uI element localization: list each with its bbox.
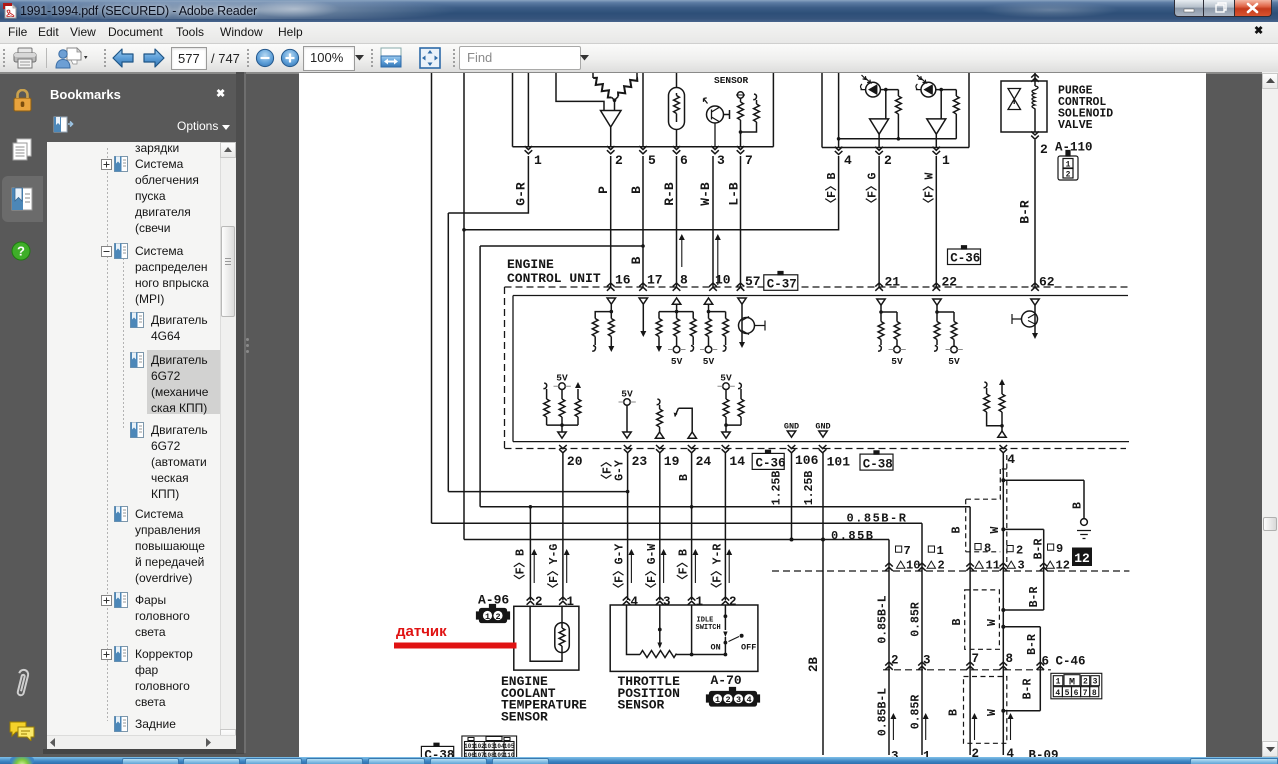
ECU outer dashed box [505, 287, 1131, 449]
svg-text:23: 23 [632, 454, 648, 469]
svg-text:P: P [596, 186, 611, 194]
marker sq7/tri10 [896, 544, 921, 573]
svg-text:8: 8 [984, 542, 991, 556]
zoom out [255, 48, 275, 68]
connector cell digits C-38 icon [464, 743, 515, 759]
svg-text:W: W [986, 709, 999, 716]
transistor Q1 [704, 98, 730, 147]
svg-text:1.25B: 1.25B [771, 471, 784, 506]
svg-text:2: 2 [535, 595, 543, 609]
internal bus [839, 138, 957, 140]
valve symbol [1008, 89, 1021, 110]
marker sq8/tri11 [975, 542, 1000, 573]
resistor R4 [741, 94, 760, 132]
svg-text:5V: 5V [720, 373, 732, 384]
svg-text:1: 1 [1056, 678, 1061, 687]
direction arrows above sensors [531, 549, 732, 583]
marker sq2/tri3 [1007, 544, 1025, 573]
svg-text:〈F〉Y-R: 〈F〉Y-R [709, 544, 724, 595]
ECU group pin17: direct line [639, 298, 647, 337]
svg-text:SENSOR: SENSOR [714, 75, 749, 86]
connector cell digits C-46 [1055, 678, 1097, 698]
A-96 sensor pin forks [527, 597, 567, 605]
svg-text:W: W [986, 619, 999, 626]
wire B-R from purge valve [1034, 140, 1036, 287]
D2 wiring + resistor [936, 88, 959, 139]
svg-text:0.85R: 0.85R [910, 695, 923, 730]
ECU group pin62: transistor [1012, 299, 1039, 339]
wire ECU14 to TPS pin2 [724, 453, 726, 600]
svg-text:16: 16 [615, 273, 631, 288]
solenoid coil [1031, 73, 1039, 139]
connector A-96 icon [477, 605, 510, 623]
horizontal H1 [448, 491, 627, 493]
svg-text:106: 106 [795, 453, 819, 468]
sensor box2 pin forks [835, 147, 940, 155]
svg-text:4: 4 [631, 595, 639, 609]
wire ECU101 1.25B / 2B [821, 453, 825, 755]
ECU row2 group pin20: triple resistors 5V [543, 382, 581, 438]
svg-text:7: 7 [745, 153, 753, 168]
panel header [50, 87, 121, 102]
svg-text:C-38: C-38 [863, 457, 893, 471]
bookmarks list [47, 142, 236, 735]
horizontal H3 0.85B-R [432, 523, 923, 755]
long vertical V3 [462, 73, 466, 540]
svg-text:C-38: C-38 [424, 749, 454, 758]
harness forks on D1 [885, 563, 1047, 571]
svg-text:2: 2 [938, 559, 945, 573]
svg-text:1: 1 [715, 695, 720, 705]
svg-text:17: 17 [647, 273, 663, 288]
signal arrow at pin8 wire [679, 234, 685, 267]
dashed wire W path [966, 455, 1007, 566]
connector label C-38 (right of 101) [860, 451, 893, 470]
wire ECU23 to TPS pin4 [626, 453, 630, 600]
svg-text:SENSOR: SENSOR [501, 710, 548, 725]
5V labels row1 [671, 356, 960, 367]
harness forks on D2 [885, 662, 1044, 670]
svg-text:R-B: R-B [662, 182, 677, 206]
svg-text:1: 1 [485, 612, 490, 622]
svg-text:0.85B-R: 0.85B-R [847, 512, 908, 526]
svg-text:5V: 5V [891, 356, 903, 367]
ECU top pin forks [607, 283, 1039, 291]
ground symbol [1077, 519, 1091, 539]
resistor R3 with 5V tap [736, 92, 745, 147]
ECU group pin10: dual resistors 5V [700, 298, 728, 353]
connector label C-36 (upper) [948, 246, 981, 265]
ECU row2 group pin4: dual resistors [984, 379, 1007, 437]
rotated wire labels top [514, 173, 1033, 265]
svg-text:B-R: B-R [1028, 587, 1041, 608]
connector cell digits A-110 [1066, 160, 1071, 179]
fit width icon [379, 47, 403, 69]
5V labels row2 [556, 373, 732, 400]
svg-text:5V: 5V [948, 356, 960, 367]
ECU group pin8: triple resistors 5V [656, 298, 696, 353]
connector cell digits A-96 [485, 612, 501, 622]
svg-text:5V: 5V [621, 389, 633, 400]
svg-text:2: 2 [729, 595, 737, 609]
svg-text:SWITCH: SWITCH [696, 624, 721, 632]
svg-text:SENSOR: SENSOR [618, 698, 665, 713]
direction arrows bottom [890, 713, 1013, 740]
svg-text:B-R: B-R [1018, 200, 1033, 224]
wire F-G to ECU21 [878, 156, 880, 287]
svg-text:A-110: A-110 [1055, 141, 1093, 155]
connector label C-36 (lower) [752, 450, 784, 469]
svg-text:3: 3 [736, 695, 741, 705]
svg-text:A-70: A-70 [711, 673, 742, 688]
ECU row2 group pin14: dual resistors 5V [718, 383, 744, 438]
TPS pin forks [623, 597, 730, 605]
TPS pin1 wire [691, 605, 693, 655]
svg-text:1: 1 [696, 595, 704, 609]
svg-text:4: 4 [844, 153, 852, 168]
wire ECU24 to TPS pin1 [690, 453, 694, 600]
dashed box around B/W wires (upper) [965, 590, 1000, 649]
svg-text:B: B [629, 256, 644, 264]
marker sq9/tri12 [1046, 542, 1070, 573]
wire pin4 [837, 73, 841, 148]
ECU group pin21: dual resistors 5V [877, 299, 906, 353]
fit page icon [418, 47, 442, 69]
GND pin106 [787, 431, 795, 437]
svg-text:6: 6 [680, 153, 688, 168]
lamp L1 capsule [669, 73, 685, 147]
horizontal H4 0.85B [464, 540, 889, 756]
B-R staple 1 [1001, 527, 1043, 612]
ECT sensor box [514, 606, 579, 670]
svg-text:2: 2 [1016, 544, 1023, 558]
svg-text:3: 3 [891, 750, 899, 758]
red annotation underline [394, 643, 517, 649]
printer icon [13, 47, 37, 69]
dashed harness line D2 [883, 669, 1051, 671]
svg-text:2: 2 [884, 153, 892, 168]
connector C-46 icon [1051, 673, 1102, 699]
sensor box 2 (injectors) [822, 73, 969, 148]
svg-text:7: 7 [972, 652, 980, 666]
wire ECU106 1.25B [790, 453, 794, 542]
svg-text:B: B [678, 474, 691, 481]
D1 wiring + resistor [880, 88, 901, 141]
svg-text:〈F〉G-W: 〈F〉G-W [644, 544, 659, 595]
wire pin5 [642, 73, 644, 147]
svg-text:B: B [951, 618, 964, 625]
svg-text:W: W [989, 526, 1002, 533]
resistor R-right diagonal [615, 73, 640, 100]
ECU group pin22: dual resistors 5V [933, 299, 963, 353]
TPS sensor box [610, 605, 758, 671]
svg-text:105: 105 [504, 743, 515, 750]
svg-text:7: 7 [1083, 689, 1088, 698]
driver triangle 1 [870, 119, 889, 148]
svg-text:〈F〉G: 〈F〉G [865, 173, 880, 210]
svg-text:2: 2 [1040, 142, 1048, 157]
left icon strip [2, 176, 43, 222]
svg-text:CONTROL UNIT: CONTROL UNIT [507, 271, 601, 286]
svg-text:M: M [1069, 678, 1075, 689]
svg-text:0.85B-L: 0.85B-L [877, 688, 890, 736]
svg-text:10: 10 [715, 273, 731, 288]
node junction [613, 99, 617, 111]
svg-text:〈F〉B: 〈F〉B [676, 549, 691, 586]
TPS potentiometer [627, 605, 728, 658]
svg-text:19: 19 [664, 454, 680, 469]
resistor R-left diagonal [591, 73, 615, 100]
long vertical V4 [480, 246, 643, 507]
svg-text:ENGINE: ENGINE [507, 257, 554, 272]
svg-text:B-R: B-R [1033, 539, 1046, 560]
op-amp U1 triangle [601, 111, 622, 147]
connector A-110 icon [1058, 151, 1078, 181]
svg-text:5: 5 [1065, 689, 1070, 698]
lock icon [12, 89, 33, 112]
wire ECU4 down [1002, 453, 1004, 755]
svg-text:11: 11 [986, 559, 1000, 573]
svg-text:10: 10 [906, 559, 920, 573]
svg-text:〈F〉B: 〈F〉B [824, 173, 839, 210]
ground branch node [1001, 478, 1084, 518]
sensor pin numbers [535, 595, 737, 609]
signal arrow at pin10 wire [715, 234, 721, 285]
svg-text:2: 2 [891, 654, 899, 668]
svg-text:B: B [951, 526, 964, 533]
photodiode D2 [916, 75, 936, 97]
svg-text:4: 4 [1007, 452, 1015, 467]
rotated wire labels bottom [513, 456, 1085, 737]
marker 12 black box [1072, 548, 1092, 567]
svg-text:1.25B: 1.25B [803, 471, 816, 506]
horizontal scrollbar of list [47, 735, 236, 749]
wire ECU19 to TPS pin3 [659, 453, 661, 600]
ECU row2 group pin23: 5V tap [619, 399, 636, 439]
svg-text:GND: GND [815, 422, 830, 432]
idle switch [723, 605, 743, 655]
svg-text:3: 3 [1018, 559, 1025, 573]
sensor box 1 (top left, CRANK ANGLE SENSOR) [513, 73, 774, 147]
svg-text:?: ? [17, 244, 25, 259]
horizontal H2 to B wire [480, 505, 970, 755]
svg-text:C-36: C-36 [756, 457, 786, 471]
svg-text:5V: 5V [703, 356, 715, 367]
wire ECU20 to ECT pin1 [562, 453, 564, 600]
marker sq1/tri2 [927, 544, 945, 573]
svg-text:B: B [948, 709, 961, 716]
svg-text:〈F〉W: 〈F〉W [922, 173, 937, 210]
svg-text:62: 62 [1039, 275, 1055, 290]
help icon [11, 241, 31, 261]
svg-text:G-Y: G-Y [614, 460, 627, 481]
svg-text:1: 1 [937, 544, 944, 558]
svg-text:B-R: B-R [1026, 634, 1039, 655]
svg-text:2: 2 [615, 153, 623, 168]
wire W-B pin3 to ECU10 [712, 156, 714, 287]
svg-text:2B: 2B [807, 657, 821, 673]
connector label C-37 [764, 272, 798, 291]
svg-text:A-96: A-96 [478, 593, 509, 608]
svg-text:6: 6 [1074, 689, 1079, 698]
wire A-96 pin2 [529, 507, 531, 600]
svg-text:21: 21 [885, 275, 901, 290]
svg-text:〈F〉B: 〈F〉B [513, 549, 528, 586]
wire P pin2 to ECU16 [610, 156, 612, 287]
svg-text:3: 3 [717, 153, 725, 168]
svg-text:14: 14 [729, 454, 745, 469]
svg-text:8: 8 [1092, 689, 1097, 698]
wire to op-amp input [556, 73, 604, 111]
collaborate icon [55, 46, 89, 70]
svg-text:C-36: C-36 [950, 252, 980, 266]
svg-text:датчик: датчик [396, 623, 447, 640]
svg-text:3: 3 [663, 595, 671, 609]
back arrow [112, 47, 135, 69]
svg-text:VALVE: VALVE [1058, 119, 1093, 132]
svg-text:〈F〉G-Y: 〈F〉G-Y [612, 544, 627, 595]
ECU bottom pin forks [559, 445, 1007, 453]
svg-text:4: 4 [746, 695, 751, 705]
svg-text:L-B: L-B [727, 182, 742, 206]
svg-text:24: 24 [696, 454, 712, 469]
svg-text:2: 2 [1083, 678, 1088, 687]
purge control solenoid valve box [1001, 81, 1047, 132]
connector cell digits A-70 [715, 695, 752, 705]
svg-text:101: 101 [827, 455, 851, 470]
svg-text:3: 3 [923, 654, 931, 668]
ECU row2 group pin24: bent arrow [674, 408, 697, 438]
svg-text:1: 1 [534, 153, 542, 168]
svg-text:B: B [629, 186, 644, 194]
vertical scrollbar of list [220, 142, 236, 735]
wire B pin5 to ECU17 [641, 156, 645, 287]
svg-text:B-R: B-R [1022, 679, 1035, 700]
B-R staple 2 [1001, 625, 1040, 713]
sensor box1 pin forks [525, 146, 745, 154]
svg-text:2: 2 [495, 612, 500, 622]
svg-text:1: 1 [923, 750, 931, 758]
zoom in [280, 48, 300, 68]
bookmarks icon (selected) [10, 186, 35, 212]
svg-text:GND: GND [784, 422, 799, 432]
svg-text:12: 12 [1056, 559, 1070, 573]
driver triangle 2 [927, 119, 946, 148]
dashed harness line D1 [772, 570, 1129, 572]
svg-text:2: 2 [1066, 170, 1071, 179]
wire G-R pin1 to V2 [448, 156, 528, 213]
wire R-B pin6 to ECU8 [676, 156, 678, 287]
svg-text:5V: 5V [671, 356, 683, 367]
svg-text:6: 6 [1042, 655, 1050, 669]
svg-text:7: 7 [904, 544, 911, 558]
long vertical V2 [447, 213, 449, 492]
svg-text:20: 20 [567, 454, 583, 469]
svg-text:9: 9 [1056, 542, 1063, 556]
svg-text:22: 22 [942, 275, 958, 290]
ECU row2 group pin19: resistor [655, 399, 663, 438]
svg-text:W-B: W-B [698, 182, 713, 206]
GND pin101 [819, 431, 827, 437]
ECU inner solid box [513, 296, 1129, 442]
connector label C-38 (bottom left) [421, 743, 453, 759]
comments icon [9, 719, 35, 741]
thermistor [530, 606, 569, 661]
svg-text:0.85B: 0.85B [831, 529, 875, 543]
svg-text:B-09: B-09 [1029, 749, 1059, 758]
wire L-B pin7 to ECU57 [740, 156, 742, 287]
svg-text:5V: 5V [556, 373, 568, 384]
svg-text:12: 12 [1074, 551, 1090, 566]
svg-text:B: B [1072, 502, 1085, 509]
dashed box around B/W wires (lower) [964, 677, 1007, 744]
svg-text:1: 1 [1066, 160, 1071, 169]
svg-text:1: 1 [567, 595, 575, 609]
GND labels [784, 422, 831, 432]
wire F-B pin4 to bus [464, 156, 839, 230]
connector A-70 icon [707, 688, 760, 707]
ECU group pin16: dual resistors [592, 298, 615, 352]
paperclip icon [13, 664, 30, 702]
bottom row numbers [891, 747, 1059, 764]
svg-text:OFF: OFF [741, 643, 756, 653]
forward arrow [142, 47, 165, 69]
svg-text:5: 5 [648, 153, 656, 168]
svg-text:0.85R: 0.85R [910, 602, 923, 637]
svg-text:〈F〉: 〈F〉 [600, 456, 615, 486]
svg-text:C-37: C-37 [767, 277, 797, 291]
svg-text:G-R: G-R [514, 182, 529, 206]
svg-text:8: 8 [680, 273, 688, 288]
svg-text:0.85B-L: 0.85B-L [877, 595, 890, 643]
svg-text:〈F〉Y-G: 〈F〉Y-G [546, 544, 561, 595]
svg-text:4: 4 [1055, 689, 1060, 698]
svg-text:2: 2 [972, 747, 980, 757]
svg-text:3: 3 [1093, 678, 1098, 687]
svg-text:4: 4 [1007, 747, 1015, 757]
ECU group pin57: transistor [738, 298, 765, 348]
panel edge [236, 72, 244, 753]
svg-text:ON: ON [711, 643, 721, 653]
TPS wiper [657, 605, 662, 649]
wire F-W to ECU22 [935, 156, 937, 287]
long vertical V1 [431, 73, 433, 523]
wire pin1 inside box [527, 73, 529, 147]
svg-text:57: 57 [745, 274, 761, 289]
svg-text:8: 8 [1006, 652, 1014, 666]
svg-text:2: 2 [725, 695, 730, 705]
connector C-38 icon (bottom left) [462, 736, 517, 760]
D2 row numbers [891, 652, 1086, 669]
svg-text:C-46: C-46 [1056, 655, 1086, 669]
photodiode D1 [861, 75, 881, 97]
pages icon [11, 138, 34, 162]
svg-text:1: 1 [942, 153, 950, 168]
